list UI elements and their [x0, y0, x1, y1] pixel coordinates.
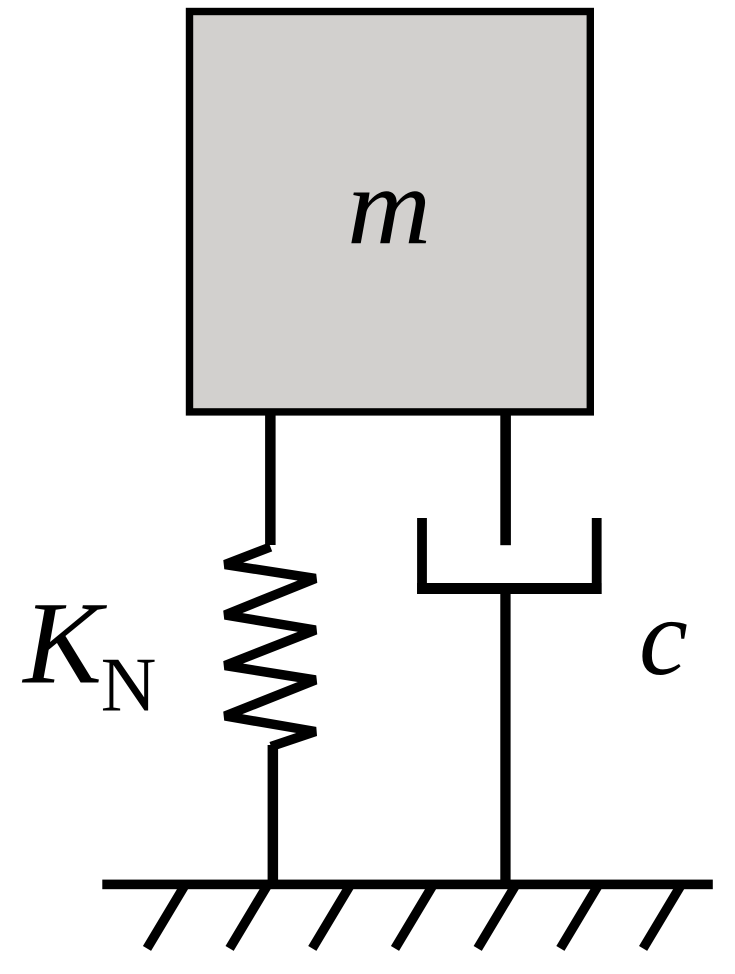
svg-text:m: m: [347, 145, 431, 267]
svg-text:N: N: [101, 642, 157, 728]
svg-text:K: K: [21, 577, 107, 708]
svg-text:c: c: [639, 576, 688, 698]
